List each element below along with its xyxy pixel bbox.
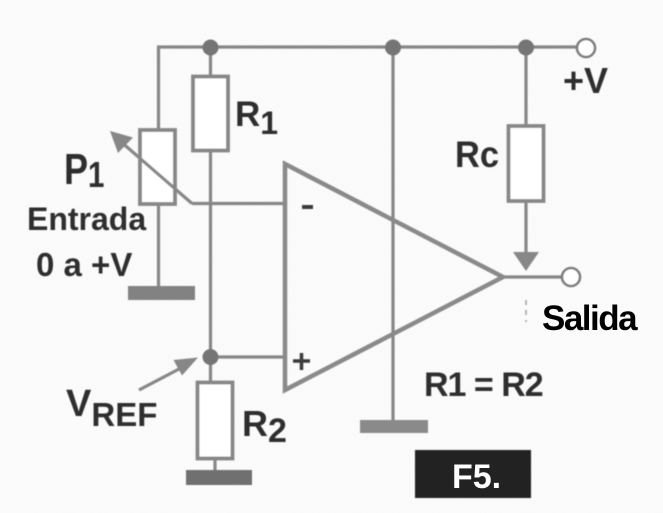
svg-text:+V: +V (563, 60, 608, 101)
svg-text:Salida: Salida (542, 299, 638, 338)
svg-text:0 a +V: 0 a +V (36, 246, 132, 283)
svg-text:Rc: Rc (455, 134, 499, 175)
svg-text:F5.: F5. (452, 458, 501, 496)
svg-text:R1 = R2: R1 = R2 (424, 366, 543, 404)
svg-text:Entrada: Entrada (27, 201, 146, 237)
